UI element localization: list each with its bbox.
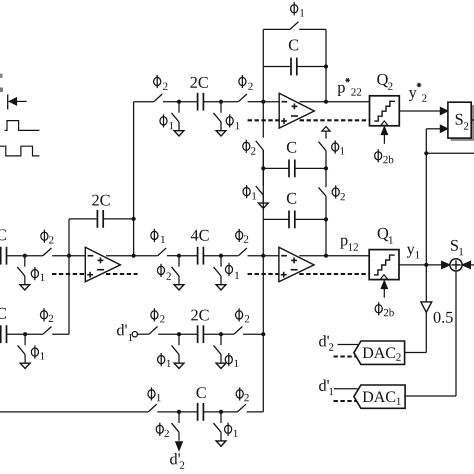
capacitor 4C (mid branch) [179, 230, 221, 265]
wire (y*2) [399, 110, 440, 112]
ground (row A) [258, 203, 268, 208]
dashed mirror wire (op1 input) [52, 273, 85, 275]
wire (to right edge) [426, 152, 474, 154]
label d’2 [319, 335, 333, 351]
arrow into S1 from right [462, 261, 471, 268]
wire (bottom rail) [0, 411, 148, 413]
ground [174, 363, 184, 368]
wire [163, 101, 179, 103]
dashed mirror wire (op2 input) [248, 119, 279, 121]
node (input 2) [23, 332, 27, 336]
arrow d’2 inject [176, 442, 183, 451]
wire (DAC1 output) [405, 395, 456, 397]
arrow into S1 [442, 261, 451, 268]
label Q1 [378, 228, 393, 244]
terminal circle d’1 [132, 332, 137, 337]
wire [7, 255, 23, 257]
wire (feedback right vertical) [325, 29, 327, 101]
arrow into S2 input 2 [440, 125, 448, 132]
wire (d2 input) [338, 344, 359, 346]
wire [221, 333, 234, 335]
switch phi2 (d2 inject) [156, 414, 179, 441]
ground [216, 441, 226, 446]
op-amp U3 [279, 247, 314, 281]
dashed mirror wire (op2 output) [300, 119, 370, 121]
switch phi1 (mid branch right to ground) [214, 258, 240, 285]
capacitor 2C (op1 feedback) [69, 195, 134, 228]
block S2 shadow [451, 105, 474, 141]
capacitor 2C (top branch) [179, 77, 221, 111]
switch phi1 (row A left to ground) [243, 170, 263, 203]
wire [263, 101, 279, 103]
wire (feedback top) [263, 28, 290, 30]
quantizer Q2 [370, 96, 400, 126]
node [219, 254, 223, 258]
arrow into S2 input 1 [440, 107, 448, 114]
ground [216, 363, 226, 368]
ground [216, 285, 226, 290]
wire [299, 28, 326, 30]
switch phi1 (d1 branch right to ground) [214, 336, 239, 367]
switch phi2 (bottom branch right) [236, 387, 249, 412]
wire [25, 333, 43, 335]
dashed wire (d2 mirror) [334, 355, 358, 357]
wire [247, 411, 264, 413]
switch phi1 (d1 branch left to ground) [158, 336, 179, 367]
switch phi2 (column series) [243, 102, 264, 169]
wire (column vertical) [262, 150, 264, 412]
switch phi1 (row A right to output) [319, 140, 345, 168]
node (row B right) [324, 217, 328, 221]
wire (d1 input) [334, 388, 358, 390]
wire [25, 255, 43, 257]
node (row A right) [324, 166, 328, 170]
wire (feedback left vertical) [262, 29, 264, 101]
switch phi2 (d1 branch right) [234, 308, 249, 334]
gain 0.5 triangle [421, 302, 432, 312]
dashed mirror wire (op1 output) [106, 273, 138, 275]
node (op2 input) [261, 100, 265, 104]
clock waveform phi2 [0, 146, 39, 156]
label d’1 (terminal) [117, 324, 132, 341]
ground [216, 131, 226, 136]
wire (S2 input 2) [426, 128, 440, 130]
wire (0.5 to DAC2 corner) [425, 312, 427, 352]
wire (op1 input vertical) [68, 219, 70, 334]
wire (op1 output vertical) [133, 102, 135, 256]
switch phi2 (top branch left) [154, 75, 168, 102]
wire [69, 255, 85, 257]
capacitor C (op2 feedback) [263, 40, 326, 76]
wire [52, 255, 69, 257]
node (op2 feedback tap) [324, 100, 328, 104]
switch phi1 (bottom branch right to ground) [214, 414, 238, 441]
node (y1 tap) [424, 263, 428, 267]
wire (op1 output) [106, 255, 134, 257]
delay marker bar [7, 94, 9, 109]
wire [157, 411, 179, 413]
switch phi1 (top branch left to ground) [160, 104, 179, 131]
label d’1 [319, 379, 333, 395]
node (branch to right edge) [424, 151, 428, 155]
switch phi2 (mid branch left to ground) [157, 258, 179, 285]
node (op2p input) [261, 254, 265, 258]
hollow arrow to op2 dashed output [322, 127, 330, 139]
dashed mirror wire (op2p output) [299, 273, 369, 275]
op-amp U1 [85, 247, 120, 281]
ground [174, 131, 184, 136]
label Q2 [377, 74, 392, 90]
label 0.5 [434, 312, 453, 323]
label p*22 [338, 78, 362, 96]
cut-off label fragment [0, 88, 3, 92]
capacitor C (row A) [263, 142, 326, 177]
label phi2b (Q2) [375, 149, 394, 163]
node (column at d1 row) [261, 332, 265, 336]
clock phi2b arrow (Q1) [381, 281, 387, 298]
capacitor 2C (d1 branch) [179, 310, 221, 343]
wire [134, 101, 154, 103]
block DAC1 [354, 385, 405, 408]
wire [248, 255, 279, 257]
wire (op2p output) [299, 255, 369, 257]
label phi2b (Q1) [375, 302, 394, 316]
clock phi2b arrow (Q2) [381, 127, 387, 144]
block DAC2 [354, 341, 405, 364]
delay marker arrow [9, 98, 27, 105]
switch phi1 (bottom branch left) [148, 387, 161, 412]
wire [167, 255, 179, 257]
node [219, 332, 223, 336]
switch phi2 (row A to row B) [319, 170, 345, 219]
node (2C to op1 output) [132, 217, 136, 221]
label y1 [407, 247, 420, 259]
node [177, 332, 181, 336]
node (op1 output) [132, 254, 136, 258]
label y*2 [409, 83, 427, 102]
cut-off label fragment [0, 74, 3, 78]
wire (S1 bottom vertical) [455, 271, 457, 396]
switch phi2 (input 2 series) [40, 308, 53, 334]
wire [137, 333, 149, 335]
node [219, 100, 223, 104]
switch phi2 (d1 branch left) [149, 308, 164, 334]
clock waveform phi1 [5, 121, 40, 131]
summer S1 [450, 259, 462, 271]
label p12 [340, 238, 358, 251]
node (op2p output) [324, 254, 328, 258]
switch phi1 (input 2 to ground) [18, 336, 45, 363]
ground (input 1) [20, 285, 30, 290]
wire [158, 333, 179, 335]
switch phi2 (top branch right) [238, 75, 252, 102]
node A (op1 input) [67, 254, 71, 258]
wire [134, 255, 158, 257]
capacitor C (bottom branch) [179, 387, 221, 421]
node [324, 64, 328, 68]
wire [221, 255, 238, 257]
label S1 [451, 240, 463, 255]
op-amp U2 [279, 93, 314, 128]
wire (op2 output) [300, 101, 370, 103]
switch phi1 (input 1 to ground) [17, 258, 44, 285]
wire [52, 333, 69, 335]
switch phi1 (mid branch left) [151, 229, 166, 256]
ground (input 2) [20, 363, 30, 368]
node [219, 410, 223, 414]
wire [221, 411, 237, 413]
dashed wire (d1 mirror) [334, 400, 358, 402]
wire [221, 101, 238, 103]
quantizer Q1 [369, 250, 399, 280]
node [177, 100, 181, 104]
wire (y1) [399, 264, 443, 266]
switch phi2 (mid branch right) [236, 229, 249, 256]
label d’2 (bottom) [170, 453, 184, 469]
ground [174, 285, 184, 290]
wire [7, 333, 23, 335]
wire (row B to output rail) [325, 219, 327, 255]
node [177, 410, 181, 414]
wire [248, 101, 264, 103]
wire (DAC2/0.5 vertical top) [425, 129, 427, 302]
node [177, 254, 181, 258]
wire (right edge to S1) [469, 264, 474, 266]
switch phi2 (input 1 series) [41, 230, 54, 256]
dashed mirror wire (op2p input) [248, 273, 279, 275]
block S2 [448, 102, 471, 138]
capacitor C (input 2) [0, 308, 6, 343]
wire (S2 output) [471, 119, 474, 121]
wire (DAC2 output) [405, 352, 427, 354]
node (input 1) [23, 254, 27, 258]
switch phi1 (top branch right to ground) [214, 104, 240, 131]
capacitor C (input 1) [0, 229, 6, 264]
wire [243, 333, 263, 335]
switch phi1 (op2 feedback) [290, 2, 304, 29]
capacitor C (row B / op2p feedback) [263, 193, 326, 228]
node (row A left) [261, 166, 265, 170]
